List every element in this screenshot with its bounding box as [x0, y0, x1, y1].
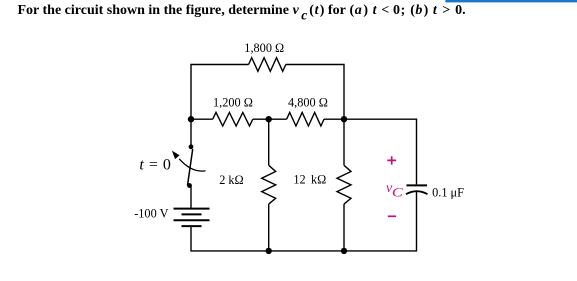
switch S1 top contact dot — [189, 144, 194, 149]
svg-text:0.1 μF: 0.1 μF — [432, 185, 464, 199]
switch S1 blade — [188, 149, 193, 186]
switch actuation arrow (arc) — [179, 159, 205, 171]
resistor R4 2 kohm (vertical) — [262, 165, 276, 204]
wire: middle rail segment A — [191, 118, 213, 120]
resistor R5 12 kohm (vertical) — [337, 165, 351, 204]
node dot (center middle) — [266, 116, 272, 122]
node dot (bottom right) — [341, 248, 347, 254]
resistor R3 4,800 ohm (horizontal, middle rail) — [287, 112, 324, 126]
wire: top loop left side — [191, 65, 249, 120]
svg-text:v: v — [293, 3, 300, 18]
svg-text:(t) for (a) t < 0; (b) t > 0.: (t) for (a) t < 0; (b) t > 0. — [309, 3, 465, 18]
polarity plus sign (magenta) — [387, 156, 396, 164]
wire: left branch down to switch — [190, 119, 192, 147]
switch arrow head — [172, 151, 180, 160]
battery V1 plate (short, bottom) — [182, 225, 202, 227]
svg-text:2 kΩ: 2 kΩ — [219, 173, 244, 187]
wire: top loop right side — [286, 65, 344, 120]
switch S1 bottom contact dot — [187, 183, 192, 188]
battery V1 plate (long, top) — [174, 208, 210, 210]
svg-text:c: c — [301, 8, 307, 23]
svg-text:For the circuit shown in the f: For the circuit shown in the figure, det… — [18, 3, 289, 18]
node dot (right middle) — [341, 116, 347, 122]
capacitor C1 bottom plate (curved) — [406, 191, 428, 194]
wire: middle rail segment C into capacitor branch — [324, 119, 417, 184]
battery V1 plate (long) — [174, 219, 210, 221]
blue header rule (top right) — [445, 0, 577, 2]
svg-text:C: C — [392, 186, 403, 200]
wire: middle rail segment B — [253, 118, 287, 120]
wire: battery down, bottom rail, up to capacitor — [191, 192, 417, 251]
battery V1 plate (short) — [182, 213, 202, 215]
svg-text:t = 0: t = 0 — [139, 157, 171, 174]
svg-text:1,200 Ω: 1,200 Ω — [213, 95, 253, 109]
resistor R2 1,200 ohm (horizontal, middle rail) — [213, 112, 253, 126]
wire: 12k branch lower — [343, 204, 345, 251]
node dot (bottom center) — [266, 248, 272, 254]
wire: 2k branch lower — [268, 204, 270, 251]
svg-text:12 kΩ: 12 kΩ — [293, 173, 326, 187]
polarity minus sign (magenta) — [388, 215, 396, 217]
wire: switch to battery — [190, 186, 192, 209]
capacitor C1 top plate (flat) — [407, 184, 428, 186]
svg-text:4,800 Ω: 4,800 Ω — [288, 95, 328, 109]
node dot (left middle) — [188, 116, 194, 122]
svg-text:1,800 Ω: 1,800 Ω — [244, 41, 284, 55]
wire: 12k branch upper — [343, 119, 345, 165]
svg-text:-100 V: -100 V — [134, 207, 168, 221]
wire: 2k branch upper — [268, 119, 270, 165]
resistor R1 1,800 ohm (horizontal, top rail) — [249, 58, 286, 72]
